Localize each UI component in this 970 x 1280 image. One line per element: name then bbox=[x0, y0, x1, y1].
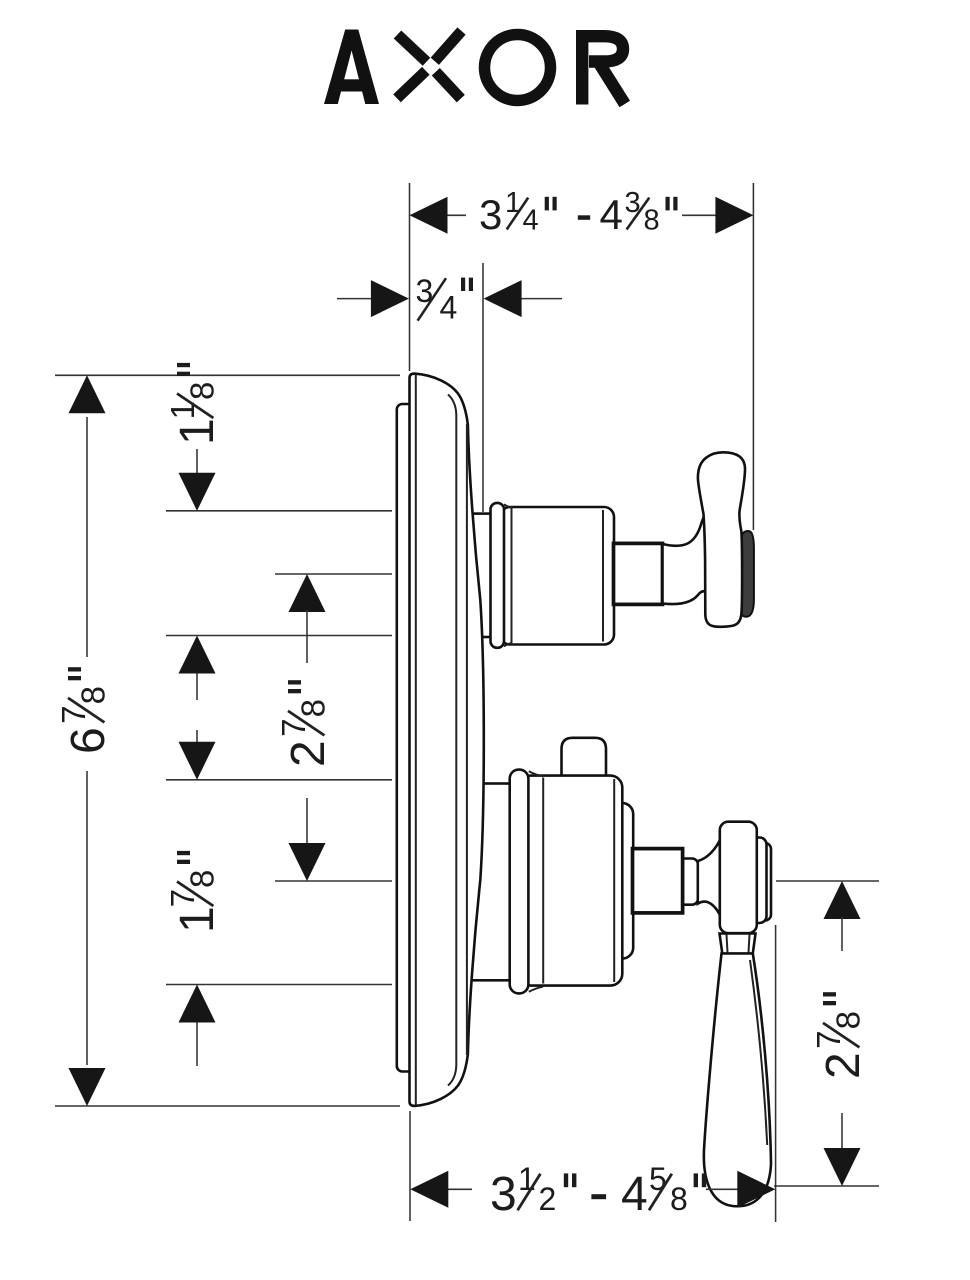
plate face inner contour bbox=[448, 395, 456, 1086]
dim 3 1/2 - 4 5/8 left arrow bbox=[410, 1171, 448, 1208]
extension line top valve axis bbox=[275, 573, 392, 575]
lever hub bell cone bbox=[698, 830, 727, 926]
extension line plate bottom bbox=[55, 1105, 400, 1107]
svg-text:8: 8 bbox=[670, 1181, 688, 1217]
top lip S-curve top bbox=[504, 504, 512, 507]
bottom valve sleeve lip bbox=[510, 770, 529, 994]
extension line lever tip bbox=[774, 1185, 879, 1187]
AXOR logo letter R bbox=[582, 36, 625, 104]
svg-text:6: 6 bbox=[62, 727, 115, 754]
top sleeve crease line bbox=[511, 506, 513, 646]
dim 6 7/8 bottom arrow bbox=[69, 1068, 106, 1106]
bottom sleeve right inner line bbox=[613, 779, 615, 982]
svg-text:4: 4 bbox=[440, 289, 458, 325]
top lip S-curve bottom bbox=[504, 643, 512, 646]
svg-text:3: 3 bbox=[416, 273, 434, 309]
label 6 7/8 rotated bbox=[55, 667, 115, 754]
svg-text:2: 2 bbox=[817, 1052, 870, 1079]
extension line bottom valve axis left bbox=[275, 880, 392, 882]
bottom valve stem bbox=[633, 849, 683, 913]
dim 3 1/4 - 4 3/8 left arrow bbox=[410, 197, 448, 234]
plate left edge inner line bbox=[415, 374, 417, 1105]
label 3/4 bbox=[416, 273, 474, 325]
extension line lever front bbox=[775, 925, 777, 1222]
bottom lip S-curve top bbox=[529, 771, 543, 776]
AXOR logo letter X bbox=[397, 31, 462, 99]
dim 1 1/8 lower tail bbox=[196, 673, 198, 700]
lever hub bell face bbox=[720, 822, 757, 934]
label 3 1/4 - 4 3/8 bbox=[479, 187, 678, 238]
escutcheon plate outline bbox=[410, 374, 484, 1106]
extension line top sleeve upper bbox=[166, 510, 392, 512]
svg-text:8: 8 bbox=[294, 699, 331, 717]
dim 1 7/8 lower tail bbox=[196, 1022, 198, 1066]
lever collar line right bbox=[749, 935, 750, 953]
lever hub disc 3 bbox=[758, 843, 771, 921]
extension line bottom sleeve upper bbox=[166, 779, 392, 781]
dim 6 7/8 top arrow bbox=[69, 375, 106, 413]
dim 2 7/8 left line lower bbox=[306, 798, 308, 845]
small ring at stem end bbox=[678, 859, 698, 905]
svg-text:8: 8 bbox=[829, 1011, 866, 1029]
dim 1 7/8 top arrow bbox=[179, 742, 216, 780]
extension line top sleeve lower bbox=[166, 635, 392, 637]
svg-text:7: 7 bbox=[810, 1030, 847, 1048]
lever inner contour bbox=[750, 960, 767, 1145]
svg-text:1: 1 bbox=[518, 1161, 536, 1197]
dim 1 1/8 bottom arrow bbox=[179, 636, 216, 674]
svg-text:1: 1 bbox=[171, 906, 224, 933]
svg-text:1: 1 bbox=[171, 418, 224, 445]
bottom valve sleeve body bbox=[519, 776, 622, 986]
dim 1 7/8 upper tail bbox=[196, 730, 198, 744]
bottom sleeve crease line bbox=[542, 778, 544, 984]
dim 3 1/2 - 4 5/8 tails bbox=[448, 1188, 472, 1190]
svg-text:3: 3 bbox=[490, 1168, 517, 1221]
dim 3/4 left arrow bbox=[371, 280, 409, 317]
extension line bottom sleeve lower bbox=[166, 984, 392, 986]
svg-text:7: 7 bbox=[275, 718, 312, 736]
svg-text:4: 4 bbox=[621, 1168, 648, 1221]
svg-text:8: 8 bbox=[644, 204, 660, 236]
svg-text:1: 1 bbox=[505, 187, 521, 219]
svg-text:3: 3 bbox=[479, 191, 502, 238]
dim 2 7/8 right line lower bbox=[841, 1113, 843, 1151]
top valve sleeve lip bbox=[491, 503, 505, 648]
extension line plate top bbox=[55, 374, 400, 376]
lever hub disc 2 bbox=[748, 838, 767, 924]
plate rim edge line bbox=[466, 424, 468, 1055]
lever handle bbox=[704, 954, 771, 1207]
svg-text:4: 4 bbox=[523, 204, 539, 236]
extension line sleeve front bbox=[482, 263, 484, 512]
dim 1 7/8 bottom arrow bbox=[179, 985, 216, 1023]
dim 6 7/8 line upper bbox=[86, 417, 88, 657]
cross handle (side view) bbox=[698, 452, 745, 627]
dim 2 7/8 left top arrow bbox=[289, 574, 326, 612]
svg-text:8: 8 bbox=[183, 870, 220, 888]
wall flange behind plate bbox=[397, 404, 417, 1072]
thermostat safety button bbox=[562, 738, 607, 779]
svg-text:7: 7 bbox=[55, 705, 92, 723]
dim 3/4 right arrow bbox=[484, 280, 522, 317]
extension line plate left top bbox=[409, 183, 411, 371]
dim 1 1/8 top arrow bbox=[179, 473, 216, 511]
bottom lip S-curve bottom bbox=[529, 987, 543, 992]
dim 2 7/8 right line upper bbox=[841, 917, 843, 951]
dim 2 7/8 left bottom arrow bbox=[289, 843, 326, 881]
svg-text:8: 8 bbox=[74, 686, 111, 704]
label 2 7/8 right rotated bbox=[810, 992, 870, 1079]
dim 2 7/8 left line upper bbox=[306, 610, 308, 663]
top sleeve right inner line bbox=[602, 510, 604, 642]
cross handle dark far arm bbox=[742, 531, 754, 617]
AXOR logo letter A bbox=[324, 30, 379, 105]
dim 1 1/8 line bbox=[196, 449, 198, 476]
top valve stem bbox=[614, 543, 663, 604]
svg-text:1: 1 bbox=[164, 401, 201, 419]
ring behind stem bbox=[600, 803, 633, 959]
extension line handle right bbox=[752, 183, 754, 530]
label 3 1/2 - 4 5/8 bbox=[490, 1161, 706, 1221]
AXOR logo letter O bbox=[485, 35, 551, 101]
dim 3 1/4 - 4 3/8 line bbox=[447, 214, 466, 216]
svg-text:7: 7 bbox=[164, 889, 201, 907]
top valve escutcheon ring bbox=[468, 514, 498, 637]
dim 6 7/8 line lower bbox=[86, 771, 88, 1065]
label 1 1/8 rotated bbox=[164, 363, 224, 445]
extension line plate left bottom bbox=[409, 1111, 411, 1221]
extension line bottom valve axis right bbox=[776, 880, 879, 882]
label 2 7/8 left rotated bbox=[275, 680, 335, 767]
lever collar line left bbox=[727, 935, 728, 953]
top valve handle hub bbox=[663, 512, 707, 604]
svg-text:5: 5 bbox=[649, 1161, 667, 1197]
svg-text:4: 4 bbox=[600, 191, 623, 238]
label 1 7/8 rotated bbox=[164, 851, 224, 933]
svg-text:2: 2 bbox=[539, 1181, 557, 1217]
dim 3 1/2 - 4 5/8 right arrow bbox=[737, 1171, 775, 1208]
lever collar bbox=[720, 934, 756, 954]
bottom valve escutcheon ring bbox=[468, 784, 516, 981]
svg-text:8: 8 bbox=[183, 382, 220, 400]
top valve sleeve body bbox=[500, 507, 614, 645]
dim 2 7/8 right bottom arrow bbox=[824, 1148, 861, 1186]
svg-text:2: 2 bbox=[282, 740, 335, 767]
dim 3 1/4 - 4 3/8 right arrow bbox=[715, 197, 753, 234]
dim 3/4 tails bbox=[337, 298, 372, 300]
dim 2 7/8 right top arrow bbox=[824, 881, 861, 919]
